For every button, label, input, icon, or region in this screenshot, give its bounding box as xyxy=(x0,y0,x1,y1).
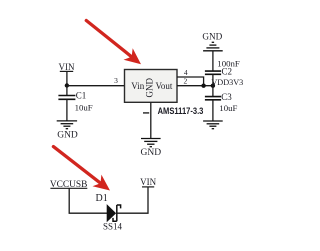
svg-text:2: 2 xyxy=(184,76,188,85)
ground (top right, inverted) xyxy=(202,32,222,51)
voltage regulator U1 AMS1117-3.3 (body) xyxy=(125,70,178,103)
diode D1 (Schottky SS14) xyxy=(107,205,121,222)
wire VCCUSB down and to diode anode xyxy=(69,188,107,213)
junction node (rail) xyxy=(211,84,215,88)
svg-text:GND: GND xyxy=(57,130,78,140)
junction node (pin4/pin2) xyxy=(201,84,205,88)
svg-text:3: 3 xyxy=(114,76,118,85)
wire VIN flag to node xyxy=(66,71,68,85)
ground (below C1) xyxy=(57,121,78,140)
svg-text:C3: C3 xyxy=(221,92,232,102)
power flag VCCUSB xyxy=(50,180,88,190)
wire C3 to ground xyxy=(212,100,214,121)
svg-text:10uF: 10uF xyxy=(75,103,93,113)
ground (below C3) xyxy=(203,121,223,129)
svg-text:GND: GND xyxy=(145,77,155,97)
junction node (VIN / C1) xyxy=(65,83,69,87)
svg-text:10uF: 10uF xyxy=(219,103,237,113)
wire C2 to rail junction xyxy=(212,74,214,96)
power flag VIN (bottom right) xyxy=(140,177,156,187)
svg-text:Vout: Vout xyxy=(156,81,173,91)
pin number 1 xyxy=(143,112,149,114)
wire regulator GND pin to ground xyxy=(150,102,152,138)
wire node to capacitor C1 xyxy=(66,86,68,96)
wire regulator pin 4 (right then down) xyxy=(177,77,204,86)
svg-text:GND: GND xyxy=(141,148,162,158)
wire top ground to C2 xyxy=(212,51,214,71)
svg-text:SS14: SS14 xyxy=(103,221,123,231)
svg-text:D1: D1 xyxy=(95,193,107,204)
svg-text:GND: GND xyxy=(202,32,222,42)
wire C1 to ground xyxy=(66,99,68,121)
capacitor C1 xyxy=(58,96,75,100)
svg-text:VIN: VIN xyxy=(59,62,75,72)
wire node to regulator pin 3 xyxy=(67,85,125,87)
capacitor C2 xyxy=(205,71,221,74)
annotation arrow (pointing at regulator GND pin) xyxy=(86,21,141,65)
svg-text:C1: C1 xyxy=(76,91,87,101)
svg-text:VIN: VIN xyxy=(140,177,156,187)
ground (below regulator) xyxy=(141,139,162,158)
svg-text:VDD3V3: VDD3V3 xyxy=(211,78,243,87)
annotation arrow (pointing at diode D1) xyxy=(53,147,110,191)
wire regulator pin 2 to VDD3V3 rail xyxy=(177,85,213,87)
svg-text:C2: C2 xyxy=(222,67,233,77)
capacitor C3 xyxy=(205,97,221,100)
power flag VIN (top left) xyxy=(59,62,75,72)
svg-text:Vin: Vin xyxy=(131,81,144,91)
svg-text:AMS1117-3.3: AMS1117-3.3 xyxy=(158,106,204,116)
wire diode cathode up to VIN flag xyxy=(117,187,148,213)
